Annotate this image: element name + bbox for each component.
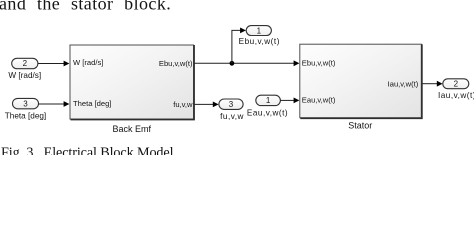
block Back Emf <box>70 45 194 134</box>
svg-text:Ebu,v,w(t): Ebu,v,w(t) <box>239 37 280 46</box>
inport 3 Theta [deg] <box>5 98 46 120</box>
svg-text:Theta [deg]: Theta [deg] <box>5 111 46 120</box>
svg-text:Eau,v,w(t): Eau,v,w(t) <box>247 108 288 117</box>
svg-text:Eau,v,w(t): Eau,v,w(t) <box>302 96 336 105</box>
outport 3 fu,v,w <box>219 99 244 121</box>
svg-text:W [rad/s]: W [rad/s] <box>8 71 41 80</box>
wire Iau to outport 2 <box>422 81 442 87</box>
svg-text:2: 2 <box>454 80 459 89</box>
svg-text:fu,v,w: fu,v,w <box>173 100 193 109</box>
svg-text:fu,v,w: fu,v,w <box>220 112 244 121</box>
junction node <box>230 61 235 66</box>
svg-text:W [rad/s]: W [rad/s] <box>73 58 103 67</box>
outport 1 Ebu,v,w(t) <box>239 26 280 46</box>
svg-text:1: 1 <box>266 96 271 105</box>
svg-text:1: 1 <box>257 26 262 35</box>
wire Ebu to Stator <box>195 60 300 66</box>
inport 1 Eau,v,w(t) <box>247 95 288 117</box>
wire W to Back Emf <box>38 61 70 67</box>
svg-text:3: 3 <box>23 99 28 108</box>
outport 2 Iau,v,w(t) <box>438 79 474 100</box>
inport 2 W [rad/s] <box>8 58 41 80</box>
svg-text:Stator: Stator <box>348 121 372 131</box>
wire Eau to Stator <box>280 98 299 104</box>
svg-text:Iau,v,w(t): Iau,v,w(t) <box>438 91 474 100</box>
wire fu to outport 3 <box>195 102 219 108</box>
wire Theta to Back Emf <box>39 101 70 107</box>
svg-text:Fig. 3. Electrical Block Mode: Fig. 3. Electrical Block Model <box>1 145 174 155</box>
block Stator <box>300 44 422 130</box>
svg-text:Ebu,v,w(t): Ebu,v,w(t) <box>159 59 193 68</box>
svg-text:3: 3 <box>229 100 234 109</box>
svg-text:Ebu,v,w(t): Ebu,v,w(t) <box>302 59 336 68</box>
svg-text:2: 2 <box>23 59 28 68</box>
svg-text:Iau,v,w(t): Iau,v,w(t) <box>388 79 419 88</box>
wire branch up to outport 1 <box>232 28 246 64</box>
svg-text:and the stator block.: and the stator block. <box>0 0 171 14</box>
svg-text:Back Emf: Back Emf <box>113 124 152 134</box>
svg-text:Theta [deg]: Theta [deg] <box>73 99 111 108</box>
